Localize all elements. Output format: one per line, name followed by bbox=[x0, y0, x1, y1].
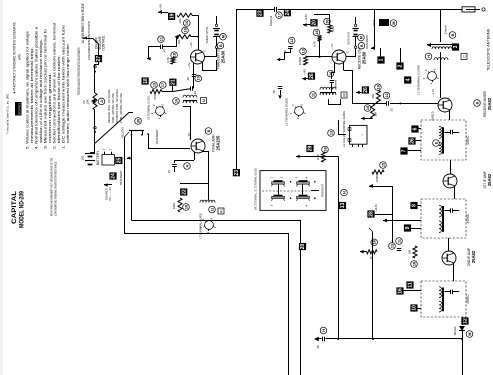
callout square 11 bbox=[406, 281, 413, 288]
svg-text:21: 21 bbox=[171, 79, 177, 85]
wires 1st if bbox=[450, 160, 452, 174]
svg-text:20: 20 bbox=[300, 244, 306, 250]
mic terminal board box bbox=[260, 171, 326, 211]
svg-text:A1: A1 bbox=[219, 209, 223, 214]
diode 1N34A bbox=[462, 317, 464, 325]
battery plug box bbox=[102, 155, 114, 165]
svg-text:L1 TERMINAL GUIDE: L1 TERMINAL GUIDE bbox=[417, 65, 421, 95]
callout square 28 bbox=[367, 210, 374, 217]
transistor Q6 2ND IF AMP 25A82 bbox=[442, 251, 456, 265]
callout square 27 bbox=[95, 55, 102, 62]
svg-text:25: 25 bbox=[117, 158, 123, 164]
svg-text:18: 18 bbox=[373, 240, 377, 244]
svg-text:25A82: 25A82 bbox=[487, 173, 492, 186]
svg-text:18: 18 bbox=[143, 78, 149, 84]
T6 terminal guide bbox=[205, 221, 214, 230]
callout square 9 bbox=[404, 224, 411, 231]
svg-text:18: 18 bbox=[376, 85, 380, 89]
callout square 20 bbox=[310, 19, 317, 26]
svg-text:30: 30 bbox=[325, 19, 329, 23]
svg-text:4. Nominal tolerance of compo: 4. Nominal tolerance of component values… bbox=[35, 26, 39, 149]
svg-text:1N34A: 1N34A bbox=[453, 327, 457, 336]
transistor Q5 1ST IF AMP 25A82 bbox=[443, 174, 457, 188]
svg-text:SHIELD: SHIELD bbox=[431, 111, 435, 120]
antenna coil L1 bbox=[440, 9, 442, 42]
transistor Q2 RECEIVE OSC 25A80 bbox=[332, 50, 346, 64]
L2 terminal guide bbox=[295, 107, 304, 116]
svg-text:18: 18 bbox=[412, 262, 416, 266]
svg-text:H: H bbox=[342, 191, 346, 194]
svg-text:.01: .01 bbox=[390, 108, 394, 112]
svg-text:16: 16 bbox=[185, 21, 189, 25]
svg-text:CAPITAL: CAPITAL bbox=[11, 191, 18, 224]
AGC vertical wire bbox=[372, 232, 374, 339]
svg-text:—.2V: —.2V bbox=[187, 62, 191, 69]
lug junction dots bbox=[290, 181, 292, 183]
cap .05 near L2 bbox=[278, 86, 282, 88]
svg-text:100mmf: 100mmf bbox=[269, 16, 273, 27]
svg-text:B: B bbox=[360, 44, 364, 47]
transistor Q1 TRANSMIT OSC 25A80 bbox=[191, 50, 205, 64]
svg-text:4.7K: 4.7K bbox=[313, 41, 317, 47]
circled 30 bbox=[135, 118, 142, 125]
svg-text:12: 12 bbox=[463, 318, 469, 324]
svg-text:11: 11 bbox=[159, 37, 163, 41]
vertical wire 2nd if left bbox=[392, 186, 394, 243]
components left of 1st IF bbox=[380, 162, 387, 169]
svg-text:.47: .47 bbox=[163, 49, 167, 53]
callout square 29 bbox=[306, 145, 313, 152]
diagonal wire to switch bbox=[95, 113, 133, 144]
svg-text:455KC: 455KC bbox=[466, 293, 470, 303]
svg-text:TRANSMIT: TRANSMIT bbox=[155, 129, 159, 145]
svg-text:11: 11 bbox=[408, 282, 414, 288]
svg-text:S1 TERMINAL GUIDE: S1 TERMINAL GUIDE bbox=[147, 96, 151, 120]
detector output down bbox=[462, 339, 464, 375]
svg-text:common negative ground.: common negative ground. bbox=[48, 73, 52, 143]
wires 2nd if bbox=[448, 238, 450, 251]
svg-text:20: 20 bbox=[312, 20, 318, 26]
svg-text:—8.4V: —8.4V bbox=[374, 204, 378, 212]
collector bus wire bbox=[203, 60, 217, 71]
svg-text:H: H bbox=[427, 55, 431, 58]
svg-text:TRANSMIT: TRANSMIT bbox=[365, 34, 369, 49]
svg-text:.01: .01 bbox=[167, 170, 171, 174]
svg-text:LOW SHUNTING INTERNAL TRANSIST: LOW SHUNTING INTERNAL TRANSISTOR RESISTA… bbox=[54, 161, 58, 216]
svg-text:11: 11 bbox=[210, 207, 214, 211]
svg-text:25A82: 25A82 bbox=[487, 97, 492, 110]
svg-text:13: 13 bbox=[152, 83, 156, 87]
IF transformer T2 dashed box bbox=[421, 120, 466, 160]
svg-text:L3 L4 & L5 TERMINAL GUIDE: L3 L4 & L5 TERMINAL GUIDE bbox=[342, 111, 346, 147]
svg-text:RECEIVE: RECEIVE bbox=[121, 127, 125, 138]
svg-text:29: 29 bbox=[308, 146, 314, 152]
svg-text:CIRCUITRACE: CIRCUITRACE bbox=[18, 103, 22, 115]
wire t guide bbox=[339, 120, 347, 135]
mixer bias res lower bbox=[364, 105, 371, 112]
L1 terminal guide bbox=[428, 72, 437, 81]
svg-text:455KC: 455KC bbox=[466, 213, 470, 223]
svg-text:18: 18 bbox=[315, 30, 319, 34]
svg-text:TRANSMIT: TRANSMIT bbox=[119, 170, 123, 186]
circled 11 cap .47 bbox=[158, 36, 165, 43]
callout square 8 bbox=[410, 202, 417, 209]
svg-text:5.6K: 5.6K bbox=[331, 26, 335, 32]
svg-text:10K: 10K bbox=[408, 249, 412, 254]
vertical wire to AVC bus bbox=[338, 156, 340, 339]
wires Q2 top bbox=[314, 15, 330, 26]
wire res to collector bus bbox=[192, 16, 199, 51]
svg-text:.05: .05 bbox=[272, 90, 276, 94]
svg-text:4: 4 bbox=[405, 78, 411, 81]
series coupling cap to mixer bbox=[386, 101, 388, 106]
resistor 33K bbox=[177, 13, 192, 17]
svg-text:6: 6 bbox=[413, 127, 419, 130]
svg-text:17: 17 bbox=[277, 13, 281, 17]
cap .01 bottom bbox=[190, 86, 192, 91]
wire above board bbox=[296, 155, 300, 159]
transistor Q3 FINAL AMP 25A235 bbox=[191, 139, 205, 153]
2nd IF bias parts bbox=[396, 238, 403, 245]
res 100 ohm bbox=[178, 198, 182, 212]
S1 terminal guide bbox=[156, 107, 165, 116]
svg-text:with: with bbox=[18, 54, 22, 60]
callout square 23b bbox=[233, 169, 240, 176]
svg-text:9: 9 bbox=[405, 226, 411, 229]
svg-text:★ PHOTOFACT STANDARD NOTATION: ★ PHOTOFACT STANDARD NOTATION SCHEMATIC bbox=[13, 21, 17, 94]
left arrow stub y220 bbox=[383, 219, 387, 223]
svg-text:H: H bbox=[322, 329, 326, 332]
callout square 21 bbox=[169, 79, 176, 86]
wires mixer bbox=[449, 110, 451, 120]
svg-text:.02: .02 bbox=[186, 77, 190, 81]
svg-text:26: 26 bbox=[363, 87, 369, 93]
svg-text:B: B bbox=[475, 101, 479, 104]
svg-text:25A80: 25A80 bbox=[362, 51, 367, 64]
base resistor bbox=[176, 35, 191, 39]
svg-text:.05: .05 bbox=[316, 345, 320, 349]
circled 18 base res bbox=[182, 27, 189, 34]
wire osc to mixer bbox=[344, 71, 353, 104]
res 4.7K bbox=[318, 36, 322, 42]
svg-text:POSITION UNLESS OTHERWISE NOTE: POSITION UNLESS OTHERWISE NOTED ON SCHEM… bbox=[77, 47, 81, 95]
circled 13 + res 1000 bbox=[300, 48, 307, 55]
svg-text:25A80: 25A80 bbox=[221, 50, 226, 63]
svg-text:—9V: —9V bbox=[303, 69, 307, 75]
svg-text:12: 12 bbox=[290, 38, 294, 42]
svg-text:470Ω: 470Ω bbox=[153, 93, 157, 100]
svg-text:33K: 33K bbox=[178, 18, 182, 23]
svg-text:M: M bbox=[221, 35, 225, 38]
AVC bus wire bbox=[316, 338, 322, 340]
svg-text:—0.4V: —0.4V bbox=[304, 14, 308, 22]
driver transformer T5 bbox=[183, 95, 197, 97]
callout square 26b bbox=[408, 137, 415, 144]
svg-text:10K: 10K bbox=[86, 99, 90, 104]
electrolytic 30mf bbox=[379, 19, 389, 26]
callout square 3 bbox=[452, 43, 459, 50]
svg-text:★ MEASURED IN TRANSMIT POSITIO: ★ MEASURED IN TRANSMIT POSITION. bbox=[87, 21, 91, 60]
svg-text:16: 16 bbox=[398, 288, 404, 294]
svg-text:CONTROL: CONTROL bbox=[102, 35, 106, 51]
series cap 100mmf on bus bbox=[274, 7, 278, 13]
svg-text:TELESCOPIC ANTENNA: TELESCOPIC ANTENNA bbox=[487, 28, 491, 71]
wire L1 to mixer bbox=[440, 52, 442, 98]
svg-text:measurements taken at terminal: measurements taken at terminal strip. bbox=[30, 47, 34, 143]
callout square 22 bbox=[180, 188, 187, 195]
circled 12 + cap bbox=[288, 37, 295, 44]
svg-text:M: M bbox=[359, 36, 363, 39]
svg-text:—9V: —9V bbox=[159, 4, 163, 10]
svg-text:BATTERY: BATTERY bbox=[96, 150, 100, 165]
svg-text:5. Volume control at maximum,: 5. Volume control at maximum, no signal … bbox=[26, 31, 30, 149]
svg-text:1: 1 bbox=[379, 58, 385, 61]
svg-text:13: 13 bbox=[340, 203, 346, 209]
mixer bias res 56K upper bbox=[375, 84, 382, 91]
svg-text:C: C bbox=[203, 50, 207, 52]
svg-text:L2 TERMINAL GUIDE: L2 TERMINAL GUIDE bbox=[285, 98, 289, 126]
svg-text:3: 3 bbox=[453, 45, 459, 48]
svg-text:1. DC voltage measurements ta: 1. DC voltage measurements taken with va… bbox=[62, 25, 66, 149]
top bus wire to antenna bbox=[237, 10, 463, 170]
supply arrow -9V bbox=[158, 10, 162, 14]
svg-text:H: H bbox=[185, 164, 189, 167]
svg-text:4.7K: 4.7K bbox=[166, 57, 170, 63]
svg-text:B: B bbox=[219, 44, 223, 47]
circuitrace black box bbox=[15, 102, 22, 116]
callout square 12 bbox=[461, 317, 468, 324]
svg-text:M: M bbox=[202, 99, 206, 102]
svg-text:C: C bbox=[462, 55, 466, 58]
svg-text:13: 13 bbox=[390, 244, 394, 248]
base wire Q2 bbox=[320, 41, 333, 57]
callout square 16b bbox=[396, 287, 403, 294]
svg-text:11: 11 bbox=[397, 239, 401, 243]
svg-text:10: 10 bbox=[366, 106, 370, 110]
vertical bus to sq23b bbox=[236, 168, 238, 170]
IF transformer T4 dashed box bbox=[421, 281, 466, 317]
callout square 1 bbox=[377, 56, 384, 63]
bus wire outer bbox=[132, 221, 301, 375]
svg-text:56K: 56K bbox=[374, 111, 378, 116]
svg-text:variation of ±15% in voltage a: variation of ±15% in voltage and resista… bbox=[39, 39, 43, 143]
battery 9V bbox=[85, 153, 95, 155]
svg-text:13: 13 bbox=[329, 131, 333, 135]
svg-text:L7 TERMINAL GUIDE: L7 TERMINAL GUIDE bbox=[199, 213, 203, 239]
svg-text:8: 8 bbox=[412, 204, 418, 207]
svg-text:M: M bbox=[468, 332, 472, 335]
svg-text:voltmeter; audio measured with: voltmeter; audio measured with low-range… bbox=[66, 43, 70, 143]
svg-text:13mmf: 13mmf bbox=[444, 25, 448, 34]
svg-text:30: 30 bbox=[136, 119, 140, 123]
svg-text:56K: 56K bbox=[371, 93, 375, 98]
svg-text:B: B bbox=[207, 129, 211, 132]
circled 30 bbox=[324, 18, 331, 25]
callout square 19 bbox=[168, 13, 175, 20]
2nd IF gnd res bbox=[371, 239, 378, 246]
svg-text:15: 15 bbox=[381, 163, 385, 167]
svg-text:18: 18 bbox=[323, 147, 327, 151]
callout square 2 bbox=[396, 62, 403, 69]
circled 16 cap 56mmf bbox=[327, 70, 334, 77]
L1 lower coil bbox=[434, 58, 448, 60]
svg-text:19: 19 bbox=[169, 13, 175, 19]
circled A bbox=[98, 98, 105, 105]
callout square 7 bbox=[400, 147, 407, 154]
cap loop wire bbox=[149, 47, 161, 59]
svg-text:11: 11 bbox=[311, 93, 315, 97]
circled 18 res 4.7K bbox=[171, 52, 178, 59]
svg-text:26: 26 bbox=[309, 73, 315, 79]
svg-text:13: 13 bbox=[301, 49, 305, 53]
svg-text:B: B bbox=[451, 33, 455, 36]
res emitter bbox=[150, 90, 162, 94]
svg-text:26: 26 bbox=[410, 138, 416, 144]
callout square 23a bbox=[256, 10, 263, 17]
svg-text:C: C bbox=[346, 51, 350, 53]
svg-text:—1.7V: —1.7V bbox=[431, 89, 435, 97]
svg-text:12: 12 bbox=[385, 93, 389, 97]
svg-text:TRANSMIT: TRANSMIT bbox=[321, 184, 325, 197]
svg-text:18: 18 bbox=[183, 28, 187, 32]
bus wire inner bbox=[125, 234, 289, 375]
callout square 26a bbox=[308, 73, 315, 80]
transistor Q4 RECEIVE MIXER 25A82 bbox=[438, 98, 452, 112]
svg-text:455KC: 455KC bbox=[466, 134, 470, 144]
svg-text:22: 22 bbox=[181, 189, 187, 195]
transmit arrow bbox=[374, 9, 376, 35]
output transformer T6 bbox=[200, 200, 215, 202]
svg-text:identifications are those of t: identifications are those of the maker. bbox=[57, 55, 61, 143]
svg-text:TRANSMIT CRYSTAL: TRANSMIT CRYSTAL bbox=[205, 26, 209, 43]
terminal lugs bbox=[272, 182, 285, 184]
callout square 25 bbox=[115, 157, 122, 164]
wire control to pot bbox=[94, 66, 96, 68]
svg-text:RECEIVE CRYSTAL: RECEIVE CRYSTAL bbox=[347, 31, 351, 44]
svg-text:MODEL ND-209: MODEL ND-209 bbox=[19, 191, 26, 228]
wire pot to battery bbox=[94, 127, 96, 129]
svg-text:24: 24 bbox=[285, 10, 291, 16]
callout square 24c bbox=[109, 172, 116, 179]
component box L3 bbox=[350, 125, 368, 144]
callout square 26c bbox=[362, 86, 369, 93]
callout square 10 bbox=[410, 304, 417, 311]
svg-text:10K: 10K bbox=[177, 39, 181, 44]
svg-text:27MA - NORMAL VOLUME: 27MA - NORMAL VOLUME bbox=[119, 93, 123, 123]
IF transformer T3 dashed box bbox=[421, 199, 466, 238]
svg-text:23: 23 bbox=[258, 10, 264, 16]
res 5.6K bbox=[328, 25, 332, 33]
svg-text:8.2K: 8.2K bbox=[316, 154, 320, 160]
wires final amp bbox=[190, 106, 193, 140]
svg-text:10: 10 bbox=[412, 305, 418, 311]
svg-text:2: 2 bbox=[398, 64, 404, 67]
wire arrow to notes bbox=[84, 36, 88, 40]
dashed centerline bbox=[262, 190, 310, 192]
volume control pot 10K bbox=[93, 93, 97, 110]
svg-text:E: E bbox=[434, 141, 438, 144]
svg-text:24: 24 bbox=[111, 173, 117, 179]
svg-text:17: 17 bbox=[161, 83, 165, 87]
svg-text:25A82: 25A82 bbox=[471, 250, 476, 263]
svg-text:1000Ω: 1000Ω bbox=[298, 57, 302, 65]
svg-text:10: 10 bbox=[197, 76, 201, 80]
wire switch to final amp bbox=[149, 134, 191, 149]
svg-text:.01: .01 bbox=[193, 91, 197, 95]
svg-text:—4V: —4V bbox=[189, 42, 193, 48]
svg-text:18: 18 bbox=[184, 205, 188, 209]
svg-text:MIC TERMINAL, S1 TERMINAL GUID: MIC TERMINAL, S1 TERMINAL GUIDE bbox=[253, 168, 257, 210]
svg-text:© Howard W. Sams & Co., Inc. 1: © Howard W. Sams & Co., Inc. 1962 bbox=[6, 94, 10, 134]
svg-text:1000Ω: 1000Ω bbox=[375, 174, 379, 182]
svg-text:100Ω: 100Ω bbox=[172, 203, 176, 210]
switch S1 bbox=[129, 130, 144, 132]
svg-text:M: M bbox=[392, 21, 396, 24]
callout square 20b bbox=[299, 243, 306, 250]
svg-text:M: M bbox=[342, 93, 346, 96]
svg-text:A: A bbox=[100, 100, 104, 103]
callout square 18b bbox=[142, 77, 149, 84]
telescopic antenna bbox=[462, 7, 475, 12]
callout square 4 bbox=[404, 76, 411, 83]
svg-text:25A235: 25A235 bbox=[216, 135, 221, 150]
callout square 24 bbox=[284, 9, 291, 16]
switch bus wires bbox=[131, 135, 133, 221]
svg-text:3. Measured values are from s: 3. Measured values are from socket pin o… bbox=[44, 29, 48, 149]
svg-text:23: 23 bbox=[234, 170, 240, 176]
osc coil T1 bbox=[320, 87, 336, 89]
svg-text:27: 27 bbox=[96, 56, 102, 62]
wire T1 down bbox=[329, 99, 341, 105]
gnd loop receive osc bbox=[278, 49, 291, 60]
svg-text:2. Socket connections are sho: 2. Socket connections are shown as botto… bbox=[53, 23, 57, 149]
svg-text:28: 28 bbox=[369, 211, 375, 217]
callout square 6 bbox=[411, 125, 418, 132]
svg-text:A5— —4V: A5— —4V bbox=[108, 187, 112, 201]
cap .01 final bbox=[172, 164, 177, 166]
svg-text:16: 16 bbox=[174, 99, 178, 103]
svg-text:ALL MEASUREMENTS TAKEN IN “REC: ALL MEASUREMENTS TAKEN IN “RECEIVE” bbox=[81, 3, 85, 43]
svg-text:7: 7 bbox=[402, 149, 408, 152]
svg-text:—.7V: —.7V bbox=[330, 43, 334, 50]
